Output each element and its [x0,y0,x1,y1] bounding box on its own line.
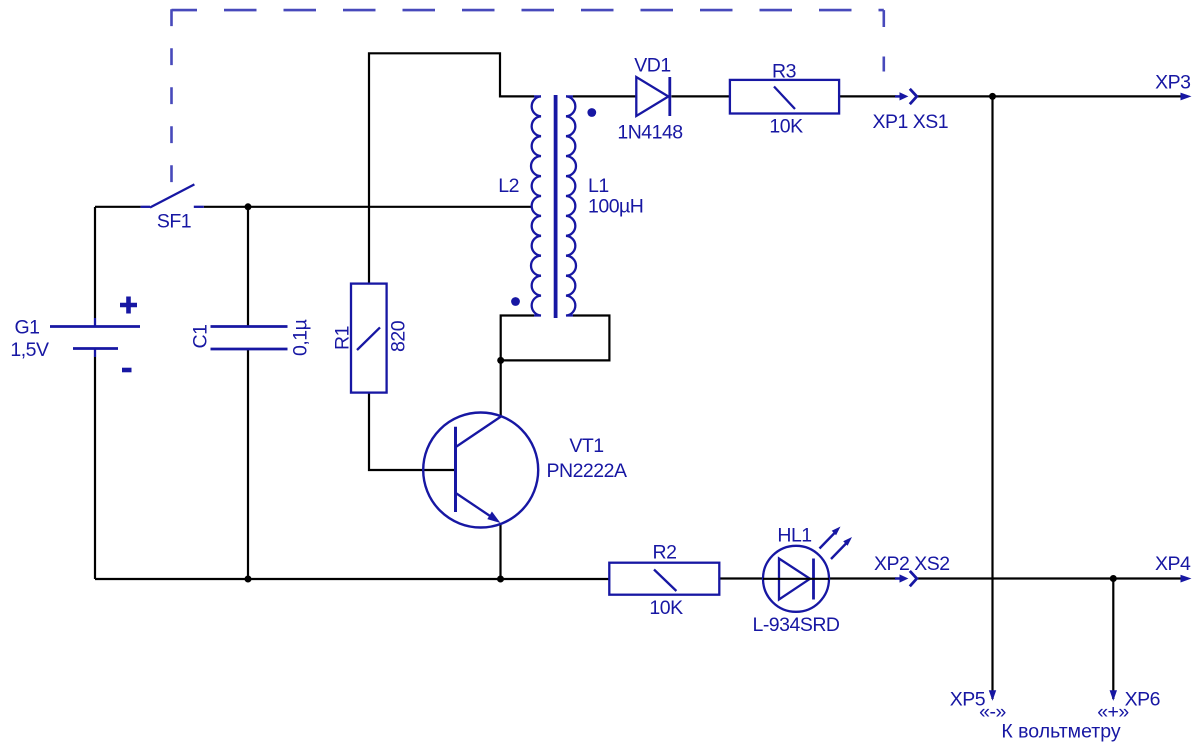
svg-text:VT1: VT1 [569,435,603,457]
svg-text:VD1: VD1 [634,55,670,77]
svg-text:PN2222A: PN2222A [547,460,627,482]
svg-text:1N4148: 1N4148 [617,122,682,144]
svg-text:SF1: SF1 [157,211,191,233]
L2 top stub [534,95,541,97]
svg-text:10K: 10K [769,116,803,138]
svg-text:L1: L1 [588,175,609,197]
svg-text:HL1: HL1 [777,525,811,547]
node junction emitter/bottom rail [497,576,504,583]
wire L2 bottom lead [501,316,534,361]
transformer core [554,95,558,318]
switch SF1 [141,184,204,207]
node junction SF1/C1 [245,203,252,210]
wire XS2 to XP4 [918,577,1183,579]
wire R1 top vertical [369,53,534,283]
wire battery bottom vertical [94,357,96,579]
diode VD1 [636,77,670,116]
svg-text:1,5V: 1,5V [10,339,49,361]
wire C1 lower [247,349,249,579]
svg-text:К вольтметру: К вольтметру [1001,721,1120,743]
pin arrow XP6 [1110,690,1117,701]
wire bottom rail [95,578,609,580]
wire diode to R3 [671,95,730,97]
pin arrow XP4 [1181,575,1192,583]
socket chevron XS2 [910,571,917,586]
svg-text:L2: L2 [498,175,519,197]
inductor L1 winding [566,96,576,315]
svg-text:R2: R2 [653,542,677,564]
svg-text:10K: 10K [649,597,683,619]
node junction collector/L2/L1 [497,357,504,364]
wire emitter down [499,523,501,579]
wire R2 to LED [719,577,763,579]
wire collector [500,360,502,416]
battery G1 [50,297,140,371]
svg-text:0,1µ: 0,1µ [290,319,312,356]
node junction XP4/XP6 [1110,575,1117,582]
pin arrow XP2 [895,574,908,582]
resistor R2 [609,563,719,595]
resistor R3 [730,80,839,114]
wire XP5 vertical drop [991,96,993,699]
wire L1 bottom loop [501,316,610,361]
dashed enclosure outline right side [882,10,885,27]
node junction XP3/XP5 [989,93,996,100]
dashed enclosure outline top side [172,9,884,12]
resistor R1 [351,284,387,393]
svg-text:XP1 XS1: XP1 XS1 [873,111,949,133]
wire XP6 vertical drop [1112,579,1114,700]
pin arrow XP3 [1181,93,1192,101]
socket chevron XS1 [910,89,917,104]
phase dot L1 [587,108,596,117]
svg-text:XP6: XP6 [1125,688,1160,710]
wire switch rail to tap [95,206,141,208]
svg-text:XP3: XP3 [1155,71,1190,93]
svg-text:R3: R3 [772,61,796,83]
svg-text:XP4: XP4 [1155,553,1191,575]
L1 top stub [566,95,573,97]
dashed enclosure outline left side [170,9,173,185]
svg-text:G1: G1 [14,317,39,339]
transistor VT1 [423,413,538,528]
svg-text:820: 820 [388,320,410,352]
wire R3 to XP1 [839,95,896,97]
wire XS1 to XP3 [918,95,1183,97]
svg-text:R1: R1 [332,326,354,350]
inductor L2 winding [531,96,541,315]
pin arrow XP1 [895,92,908,100]
svg-text:100µH: 100µH [588,196,643,218]
wire R1 bottom to base [369,393,456,470]
svg-text:L-934SRD: L-934SRD [752,614,839,636]
wire switch to junction and tap [204,206,532,208]
node junction C1/bottom rail [245,576,252,583]
wire battery left vertical [94,207,96,318]
wire LED to XP2 [829,577,896,579]
LED HL1 [763,527,852,612]
capacitor C1 [211,327,288,350]
wire L1 top to diode [573,95,636,97]
svg-text:XP2 XS2: XP2 XS2 [874,553,950,575]
svg-text:C1: C1 [190,325,212,349]
pin arrow XP5 [989,690,996,701]
wire C1 upper [247,207,249,327]
phase dot L2 [511,297,520,306]
